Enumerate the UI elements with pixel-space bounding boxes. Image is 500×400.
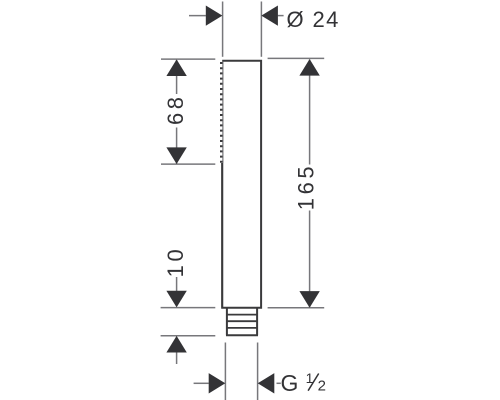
svg-text:68: 68 (163, 93, 188, 125)
svg-text:165: 165 (294, 163, 319, 211)
svg-text:10: 10 (163, 246, 188, 278)
svg-text:2: 2 (318, 378, 326, 395)
svg-text:1: 1 (306, 370, 314, 386)
svg-text:G: G (281, 370, 299, 396)
svg-text:Ø 24: Ø 24 (287, 7, 340, 32)
